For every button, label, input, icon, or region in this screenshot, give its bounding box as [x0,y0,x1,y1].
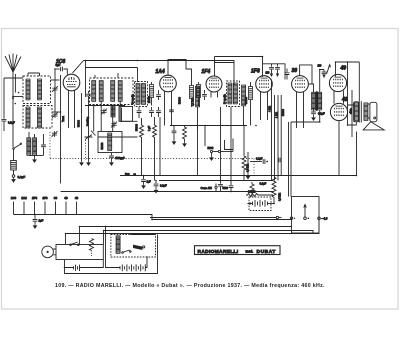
tube V2 6A4 [160,75,177,125]
capacitor C13 [311,110,325,120]
capacitor C12 [285,69,290,80]
svg-text:0,1μF: 0,1μF [8,121,15,125]
svg-text:49: 49 [340,66,347,72]
wire rail P4 [66,220,320,234]
capacitor C28 [169,110,174,112]
wire speaker return [356,132,358,176]
svg-text:5000: 5000 [208,146,214,150]
wire rail G3 [61,191,273,193]
wire V3 plate hat [214,61,216,77]
wire rail lower segment [215,62,235,64]
capacitor C23 [154,181,168,193]
wire V5 hat [300,65,312,79]
capacitor C17 [148,107,154,131]
battery terminal wire [150,217,276,219]
wire box to grid [51,79,60,81]
oscillator coil box L4 [90,78,134,105]
filter block box [98,132,122,153]
svg-text:100: 100 [318,66,323,68]
svg-text:0,5 MΩ: 0,5 MΩ [279,193,282,201]
svg-text:109. — RADIO MARELLI. — Modell: 109. — RADIO MARELLI. — Modello « Dubat … [55,283,325,289]
oscillator coil box L2 [23,106,52,129]
volume control P1 [208,146,234,160]
capacitor C4 [41,134,46,155]
resistor R6 [249,82,253,126]
svg-text:Padding: Padding [87,116,90,126]
battery A [65,260,104,272]
capacitor C14 grid [320,70,327,78]
wire top rail main [84,60,215,62]
coil L3 wave trap [27,132,44,162]
wire drop to IFT1 [137,68,139,83]
wire [52,111,61,113]
svg-text:5000: 5000 [223,187,229,190]
wire plate supply top [336,62,360,77]
svg-text:1A4: 1A4 [21,196,27,200]
resistor R5 [197,82,201,106]
resistor R14 zigzag [246,191,273,197]
tube V3 1B4 [206,76,222,98]
wire rail P1 [152,219,292,221]
trimmer CT3 [52,112,58,118]
coil L5 [195,86,199,176]
svg-text:1C6: 1C6 [11,196,17,200]
svg-text:Cono /50: Cono /50 [201,186,213,190]
resistor R3 [150,82,154,106]
IF transformer T1 [135,82,148,107]
svg-text:DUBAT: DUBAT [257,249,276,255]
rheostat R12 [90,239,94,257]
svg-text:0,1μF: 0,1μF [256,157,263,160]
wire rail G2 [159,180,273,182]
svg-text:RADIOMARELLI: RADIOMARELLI [198,249,239,255]
svg-text:30: 30 [54,196,58,200]
svg-text:4000μμF: 4000μμF [115,157,125,160]
svg-text:Tarat.: Tarat. [62,115,65,122]
wire coil drops [94,102,121,132]
bias battery box [249,197,271,211]
resistor R8 zigzag [153,117,157,181]
wire drops to +B box [289,122,292,197]
capacitor C9 [202,90,207,100]
node terminal ring [12,175,15,178]
wire speaker leads [368,104,370,118]
capacitor C6 [86,91,91,165]
svg-text:1F4: 1F4 [202,69,211,75]
svg-text:0,1 MΩ: 0,1 MΩ [192,98,195,106]
wire V2 plate hat [168,60,192,86]
wire AF bus lines [271,80,273,181]
node dots [14,103,16,105]
capacitor C11 [275,64,280,76]
svg-text:3μF: 3μF [56,63,61,67]
resistor R7 zigzag [140,118,144,176]
speaker magnet [370,102,377,122]
dotted drop [49,132,51,159]
svg-text:30: 30 [292,68,298,74]
resistor R9 zigzag [183,126,187,147]
vibrator box dashed [111,235,156,258]
wire OT lead 1 [347,62,349,125]
capacitor C5 3uF [55,63,67,75]
detector line [170,125,247,127]
tube V7 49 [330,103,347,120]
arrow to grid [327,65,331,74]
svg-text:1μF: 1μF [39,219,44,223]
wire rail second [86,67,138,69]
wire drops [159,117,161,176]
+B terminal box [292,197,320,234]
tube V4 1F6 [256,76,273,120]
node antenna junction [12,96,14,98]
wire plate connects [346,82,349,84]
wire antenna down [12,97,14,148]
svg-text:0,1μF: 0,1μF [160,184,167,188]
svg-text:0,5 MΩ: 0,5 MΩ [247,164,250,172]
speaker cone [363,122,384,130]
trimmer CT7 [85,135,93,140]
capacitor C16 [136,107,142,131]
transformer T3 interstage [291,70,322,123]
wire coil box top lead [95,73,118,78]
wire V7 cathode drop [338,121,340,176]
svg-text:Rete: Rete [125,172,130,175]
terminal strip ticks [14,202,77,215]
arrow down [12,98,14,101]
arrow up [304,205,307,218]
diode load column [246,152,249,179]
wire hat join [214,57,216,63]
wire vibrator top [130,234,155,236]
capacitor C18 [156,107,161,117]
node dot [308,218,310,220]
wire B+ rail upper [215,56,263,58]
wire drop mid [85,61,87,98]
capacitor C20 tone [250,157,268,164]
resistor R13 zigzag [272,177,276,204]
svg-text:0,1μF: 0,1μF [318,112,325,116]
wire rail P2 [80,226,292,228]
svg-text:1μF: 1μF [147,181,152,184]
trimmer CT2 [52,86,58,92]
svg-text:50000: 50000 [245,96,248,104]
switch S1 wave-band [13,143,22,160]
svg-text:20000: 20000 [148,95,151,103]
antenna [5,54,21,97]
svg-text:1F6: 1F6 [43,196,48,200]
node ring right [318,217,321,220]
switch S2 [70,242,79,246]
svg-text:49: 49 [341,97,348,103]
resistor R11 zigzag [250,182,254,197]
wire plate diagonal to rail [73,61,84,73]
svg-text:49: 49 [75,196,79,200]
capacitor C10 [269,64,274,76]
coil L7 [116,236,120,254]
svg-text:2 μF: 2 μF [148,125,151,131]
filament box [53,245,103,260]
tube V5 30 [292,76,309,128]
node rete junction [133,173,136,176]
svg-text:50000: 50000 [282,108,285,116]
node ring T1 [276,216,278,218]
trimmer CT1 [52,131,58,137]
wire antenna feed to coil box [13,96,23,98]
wire drop d [106,227,111,268]
node dot left [294,218,295,219]
dotted companion [85,140,87,160]
wire hat to IFT3 [215,61,235,86]
svg-text:1F4: 1F4 [32,196,37,200]
svg-text:−4,5: −4,5 [322,217,328,221]
IF transformer T2 [227,81,240,107]
capacitor C21 across AF bus [279,158,281,163]
tick [279,217,282,219]
resistor R4 [190,86,194,108]
wire rail P3 [104,231,314,234]
dotted AVC line [50,158,254,160]
capacitor C8 [156,90,161,100]
wire drop a [79,227,81,245]
capacitor C22 [141,176,146,189]
resistor R-ant [11,161,17,175]
svg-text:50000: 50000 [179,96,182,104]
wire OT lead 2 [358,62,360,101]
capacitor C-left edge [2,78,23,131]
resistor R10 zigzag [242,126,246,181]
oscillator sub wiring [85,105,138,137]
svg-text:1F6: 1F6 [251,69,260,75]
svg-text:1ª media: 1ª media [131,94,135,104]
capacitor C24 1uF [33,215,44,229]
battery C bias [248,200,275,207]
wire V4 hat [263,57,286,80]
svg-text:altop.: altop. [350,108,353,114]
svg-text:50000: 50000 [78,119,81,127]
capacitor C19 [172,126,177,145]
terminal strip labels [11,196,79,200]
wire cathode drop [80,93,83,165]
switch S3 [122,250,131,253]
tube V1 4C6 [63,74,80,128]
relay contact [134,245,145,249]
pilot lamp / pickup [42,246,54,258]
svg-text:1A4: 1A4 [156,69,165,75]
wire bracket [225,139,234,152]
volume pot cono [201,184,218,192]
wire to rail [198,126,206,147]
svg-text:0,1μF: 0,1μF [260,182,267,186]
svg-text:mod.: mod. [246,250,254,254]
wire grid drop [54,69,56,112]
node ring [304,217,307,220]
model label box [195,246,281,255]
wire terminal bus [14,215,153,220]
svg-text:0,1μF: 0,1μF [18,175,26,179]
coil L6 [241,85,245,126]
antenna coil box L1 [23,73,51,104]
dotted AVC drop [253,159,255,176]
svg-text:49: 49 [64,196,68,200]
battery B [111,257,147,271]
node ring left edge [290,217,292,219]
compensator box [119,107,133,122]
transformer T4 output [348,90,369,137]
wire drop b [103,231,105,245]
capacitor C25 [218,107,223,192]
wire drop c [65,234,67,245]
svg-text:100: 100 [266,73,271,75]
svg-text:50000: 50000 [101,142,104,150]
wire tuning line [60,75,62,184]
svg-text:4 MΩ: 4 MΩ [268,106,271,112]
capacitor C26 [229,107,234,192]
ground [12,177,15,182]
tube V6 49 [329,74,346,91]
wire rail G1 [120,175,357,177]
svg-text:2ª media: 2ª media [223,94,227,104]
wire push-pull capsule [334,91,344,104]
wire mast pair [14,74,16,93]
svg-text:1 MΩ: 1 MΩ [275,112,278,118]
wire bottom run [65,235,158,274]
capacitor C27 [109,153,125,166]
svg-text:50000: 50000 [136,123,139,131]
